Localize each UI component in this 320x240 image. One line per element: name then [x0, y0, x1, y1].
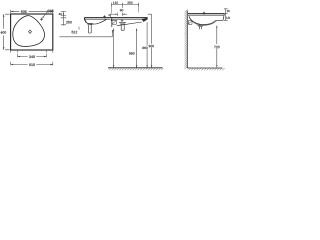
side view tap tick [203, 12, 205, 15]
height dim line 860 [146, 22, 148, 67]
side view bowl curve [189, 16, 215, 24]
side view bowl outer shell [189, 17, 216, 25]
side chain ticks [61, 11, 66, 24]
side view front edge [215, 14, 224, 21]
side view right dim ticks [224, 9, 228, 20]
profile drain flange [87, 24, 93, 25]
front view underside line [117, 22, 142, 26]
side view rim lines [188, 13, 224, 15]
front top chain ticks [112, 3, 139, 7]
text label 860 at 145,49 [142, 47, 147, 49]
front view rim lines [112, 17, 148, 19]
front view floor line [108, 67, 163, 69]
side view drain flange [198, 25, 204, 26]
text label 505 at 23.8,13.0 [21, 11, 27, 14]
text label 250 at 66,23.4 [66, 21, 72, 23]
front view left edge [111, 18, 113, 27]
side view 720 arrows [216, 26, 217, 68]
Ø35 leader line [43, 12, 47, 18]
plan view rectangle [11, 14, 53, 50]
text label 512 at 71.5,33.3 [72, 31, 78, 33]
profile view front edge [84, 18, 86, 23]
dim 505 extension ticks [11, 10, 53, 13]
side view floor line [187, 67, 222, 69]
text label O35 at 50.3,12.2 [47, 10, 53, 13]
side view drain pipe [199, 27, 201, 30]
text label 15 at 228.2,12 [227, 10, 230, 12]
profile view bowl curve [86, 19, 106, 24]
arrows dim 340 [18, 56, 47, 58]
arrow Ø35 leader [43, 16, 45, 18]
tap hole cross [40, 18, 43, 21]
drain diamond [29, 30, 32, 33]
front top chain line [112, 4, 139, 6]
plan view basin outline [13, 16, 45, 47]
arrows dim 510 [11, 64, 53, 66]
arrows dim 505 [11, 11, 53, 13]
dim 510 line [11, 64, 53, 66]
side chain 512 tick [78, 27, 80, 30]
text label 40 at 61.8,15 [59, 13, 62, 15]
text label 720 at 216.8,48.2 [214, 46, 219, 48]
height dim arrows [113, 29, 114, 68]
dim 340 extension hooks [18, 51, 47, 58]
profile tap hole tick [103, 15, 106, 18]
side view right dim line [225, 9, 227, 20]
profile drain pipe [89, 25, 92, 33]
profile rear ticks [108, 14, 111, 21]
dim 505 line [11, 10, 53, 12]
front view wall bracket [112, 20, 117, 24]
text label 400 at 3.4,33.6 [1, 31, 7, 33]
text label 110 at 115.5,3.8 [113, 2, 118, 4]
dim 400 line [3, 14, 5, 50]
profile view rim lines [84, 17, 112, 19]
text label 900 at 151.3,47.2 [149, 45, 154, 47]
text label 660 at 131.8,54.6 [129, 52, 134, 54]
text label 250 at 130,3.8 [128, 2, 133, 4]
text label 340 at 32,58 [29, 56, 35, 59]
dim 510 extension hooks [11, 51, 53, 66]
arrows dim 400 [3, 14, 5, 50]
side view floor hatch [189, 68, 225, 70]
text label 120 at 228.4,18.8 [226, 17, 231, 19]
front view floor hatch [109, 68, 163, 70]
front view right wedge [142, 18, 148, 22]
front 60 dim ticks and line [109, 13, 128, 16]
height dim line 660 [136, 29, 138, 68]
side chain arrow [63, 13, 64, 15]
side view wall bracket [188, 21, 192, 25]
text label 60 at 121.5,11.3 [120, 9, 123, 11]
height dim line 1 [113, 29, 115, 68]
front top chain extensions [112, 5, 139, 14]
side view height dim 720 line [216, 26, 218, 68]
wall line [186, 11, 188, 69]
wall hatch [185, 9, 188, 69]
label backing plates [128, 51, 135, 55]
front view drain flange [119, 23, 126, 24]
60 dim arrows [115, 14, 124, 15]
dim 340 line [18, 56, 47, 58]
dim 400 extension ticks [5, 14, 10, 50]
text label 810 at 32,66 [29, 64, 35, 67]
front view drain cross [121, 20, 123, 22]
front view drain pipe [121, 24, 124, 30]
side chain vertical line [63, 11, 65, 25]
height dim line 900 [148, 14, 152, 67]
side chain bottom horizontal line and riser [60, 30, 113, 37]
riser arrow [112, 30, 113, 32]
